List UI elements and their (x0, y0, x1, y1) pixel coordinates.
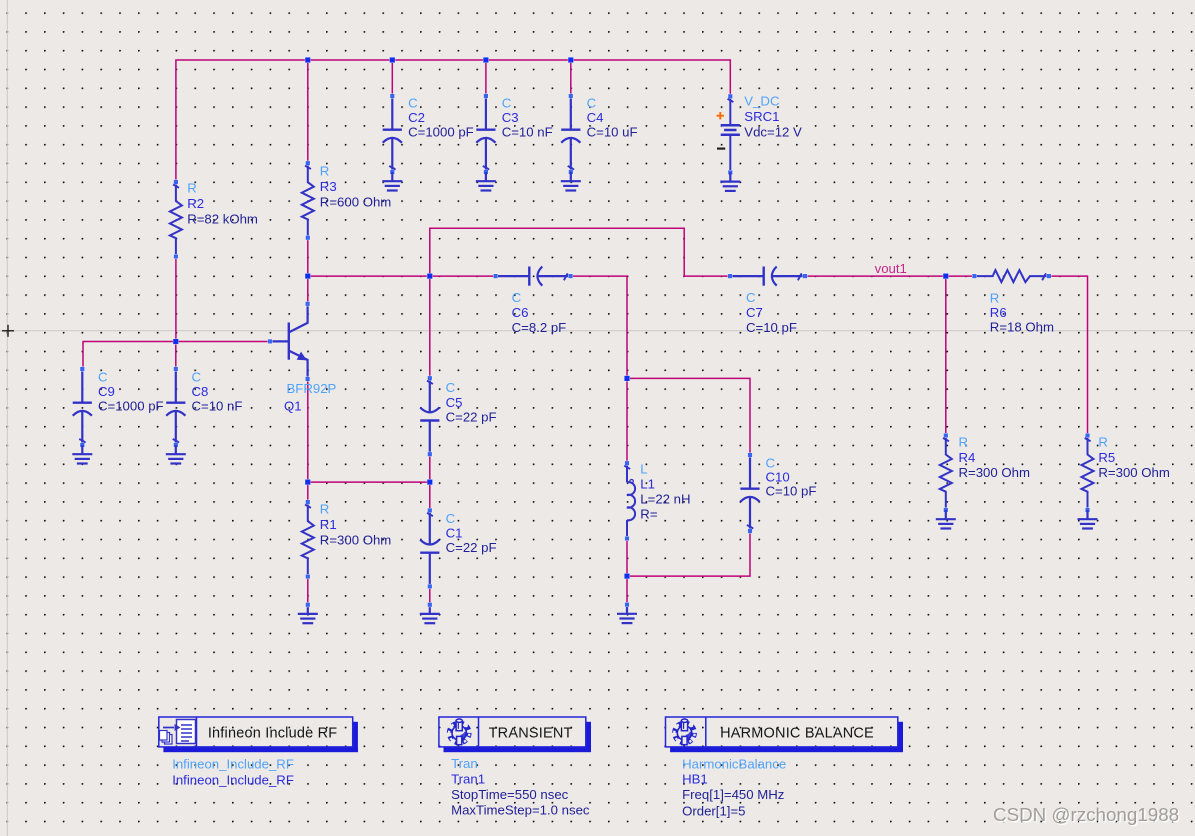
svg-text:C9: C9 (98, 384, 115, 399)
svg-text:C=22 pF: C=22 pF (446, 410, 497, 425)
svg-text:C: C (512, 290, 522, 305)
svg-text:Infineon_Include_RF: Infineon_Include_RF (172, 757, 294, 772)
svg-text:R4: R4 (959, 450, 976, 465)
svg-text:BFR92P: BFR92P (287, 381, 337, 396)
svg-text:C: C (446, 380, 456, 395)
svg-text:R1: R1 (320, 517, 337, 532)
svg-text:HarmonicBalance: HarmonicBalance (682, 757, 786, 772)
svg-text:C4: C4 (587, 110, 604, 125)
svg-text:C2: C2 (408, 110, 425, 125)
svg-text:R=82 kOhm: R=82 kOhm (187, 212, 258, 227)
svg-text:R: R (187, 181, 197, 196)
svg-text:R=300 Ohm: R=300 Ohm (320, 533, 391, 548)
svg-text:C=1000 pF: C=1000 pF (98, 399, 164, 414)
svg-text:C8: C8 (192, 384, 209, 399)
svg-text:C: C (746, 290, 756, 305)
svg-text:MaxTimeStep=1.0 nsec: MaxTimeStep=1.0 nsec (451, 803, 590, 818)
svg-text:C: C (446, 511, 456, 526)
svg-text:Infineon Include RF: Infineon Include RF (208, 726, 338, 742)
svg-text:C=10 pF: C=10 pF (766, 484, 817, 499)
svg-text:R: R (320, 164, 330, 179)
svg-text:V_DC: V_DC (744, 94, 780, 109)
svg-text:SRC1: SRC1 (744, 109, 779, 124)
svg-text:R: R (1098, 435, 1108, 450)
svg-text:C7: C7 (746, 305, 763, 320)
svg-text:R=18 Ohm: R=18 Ohm (990, 320, 1054, 335)
svg-text:C5: C5 (446, 395, 463, 410)
svg-text:C: C (766, 456, 776, 471)
svg-text:Tran: Tran (451, 756, 478, 771)
svg-text:L: L (640, 462, 647, 477)
svg-text:C=10 pF: C=10 pF (746, 320, 797, 335)
svg-text:C=10 nF: C=10 nF (192, 399, 243, 414)
svg-text:R=: R= (640, 507, 658, 522)
svg-text:L=22 nH: L=22 nH (640, 492, 690, 507)
svg-text:HB1: HB1 (682, 771, 708, 786)
svg-text:R=600 Ohm: R=600 Ohm (320, 195, 391, 210)
svg-text:R: R (990, 291, 1000, 306)
svg-text:R: R (320, 502, 330, 517)
svg-text:C: C (98, 370, 108, 385)
svg-text:HARMONIC BALANCE: HARMONIC BALANCE (720, 726, 874, 742)
svg-text:C=10 uF: C=10 uF (587, 125, 638, 140)
svg-text:R: R (959, 435, 969, 450)
svg-text:C10: C10 (766, 470, 790, 485)
svg-text:C=1000 pF: C=1000 pF (408, 125, 474, 140)
svg-text:R=300 Ohm: R=300 Ohm (959, 465, 1030, 480)
svg-text:C: C (502, 96, 512, 111)
svg-text:Q1: Q1 (284, 399, 302, 414)
svg-text:R3: R3 (320, 179, 337, 194)
svg-text:R5: R5 (1098, 450, 1115, 465)
svg-text:C=22 pF: C=22 pF (446, 540, 497, 555)
svg-text:C: C (587, 96, 597, 111)
svg-text:R6: R6 (990, 305, 1007, 320)
svg-text:C6: C6 (512, 305, 529, 320)
svg-text:Infineon_Include_RF: Infineon_Include_RF (172, 773, 294, 788)
svg-text:Vdc=12 V: Vdc=12 V (744, 125, 802, 140)
svg-text:R=300 Ohm: R=300 Ohm (1098, 465, 1169, 480)
svg-text:C: C (408, 96, 418, 111)
svg-text:vout1: vout1 (875, 261, 907, 276)
svg-text:C=8.2 pF: C=8.2 pF (512, 320, 567, 335)
svg-text:CSDN @rzchong1988: CSDN @rzchong1988 (993, 804, 1179, 825)
svg-text:R2: R2 (187, 196, 204, 211)
svg-text:Freq[1]=450 MHz: Freq[1]=450 MHz (682, 787, 784, 802)
svg-text:TRANSIENT: TRANSIENT (489, 726, 573, 742)
svg-text:C3: C3 (502, 110, 519, 125)
svg-text:C1: C1 (446, 526, 463, 541)
svg-text:C: C (192, 370, 202, 385)
svg-text:Tran1: Tran1 (451, 771, 485, 786)
svg-text:StopTime=550 nsec: StopTime=550 nsec (451, 787, 569, 802)
svg-text:Order[1]=5: Order[1]=5 (682, 803, 745, 818)
svg-text:C=10 nF: C=10 nF (502, 125, 553, 140)
svg-text:L1: L1 (640, 477, 655, 492)
